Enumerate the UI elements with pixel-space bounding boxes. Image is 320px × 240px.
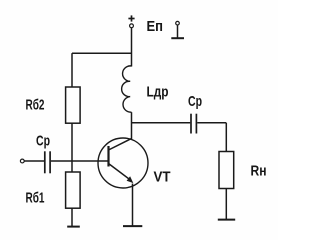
wire: top horizontal branch	[72, 52, 132, 54]
resistor Rн	[219, 152, 234, 189]
svg-text:VT: VT	[154, 169, 171, 186]
chassis terminal symbol circle	[176, 21, 180, 25]
transistor VT emitter stroke with arrow	[109, 164, 134, 184]
wire: divider middle (Rб2 bottom to junction to Rб1 top)	[71, 123, 73, 172]
chassis terminal symbol stem	[177, 25, 179, 38]
wire: emitter lead down	[132, 184, 134, 227]
wire: rail from coil to collector	[131, 112, 133, 139]
input terminal circle	[20, 159, 24, 163]
chassis terminal symbol bar	[171, 37, 184, 39]
resistor Rб2	[66, 87, 81, 123]
ground under Rн	[218, 219, 235, 221]
inductor Lдр coil	[122, 66, 132, 112]
wire: Rн bottom lead	[225, 189, 227, 220]
power terminal + sign	[128, 15, 134, 21]
transistor VT circle	[98, 138, 148, 188]
wire: base wire from Ср to transistor base	[51, 160, 109, 162]
capacitor Ср output plates	[191, 114, 196, 134]
svg-text:Ср: Ср	[188, 93, 202, 110]
wire: output horizontal to Ср	[132, 122, 191, 124]
power terminal circle	[130, 24, 134, 28]
wire: from Ср to corner	[197, 122, 226, 124]
wire: Rб1 bottom lead	[71, 208, 73, 226]
svg-text:Rб1: Rб1	[26, 189, 45, 206]
ground under emitter	[123, 225, 142, 227]
wire: corner down to Rн	[225, 123, 227, 152]
wire: Rб2 top lead	[71, 53, 73, 87]
svg-text:Lдр: Lдр	[147, 84, 169, 101]
wire: supply rail vertical top	[131, 28, 133, 67]
svg-text:Rб2: Rб2	[26, 97, 45, 114]
ground under Rб1	[67, 226, 80, 228]
svg-text:Ср: Ср	[36, 133, 50, 150]
wire: input lead to Ср	[24, 160, 44, 162]
svg-text:Rн: Rн	[251, 163, 267, 180]
transistor VT base bar	[107, 146, 109, 167]
resistor Rб1	[66, 172, 81, 208]
transistor VT collector stroke	[109, 139, 132, 151]
svg-text:Еп: Еп	[147, 18, 164, 35]
capacitor Ср input plates	[45, 151, 50, 173]
